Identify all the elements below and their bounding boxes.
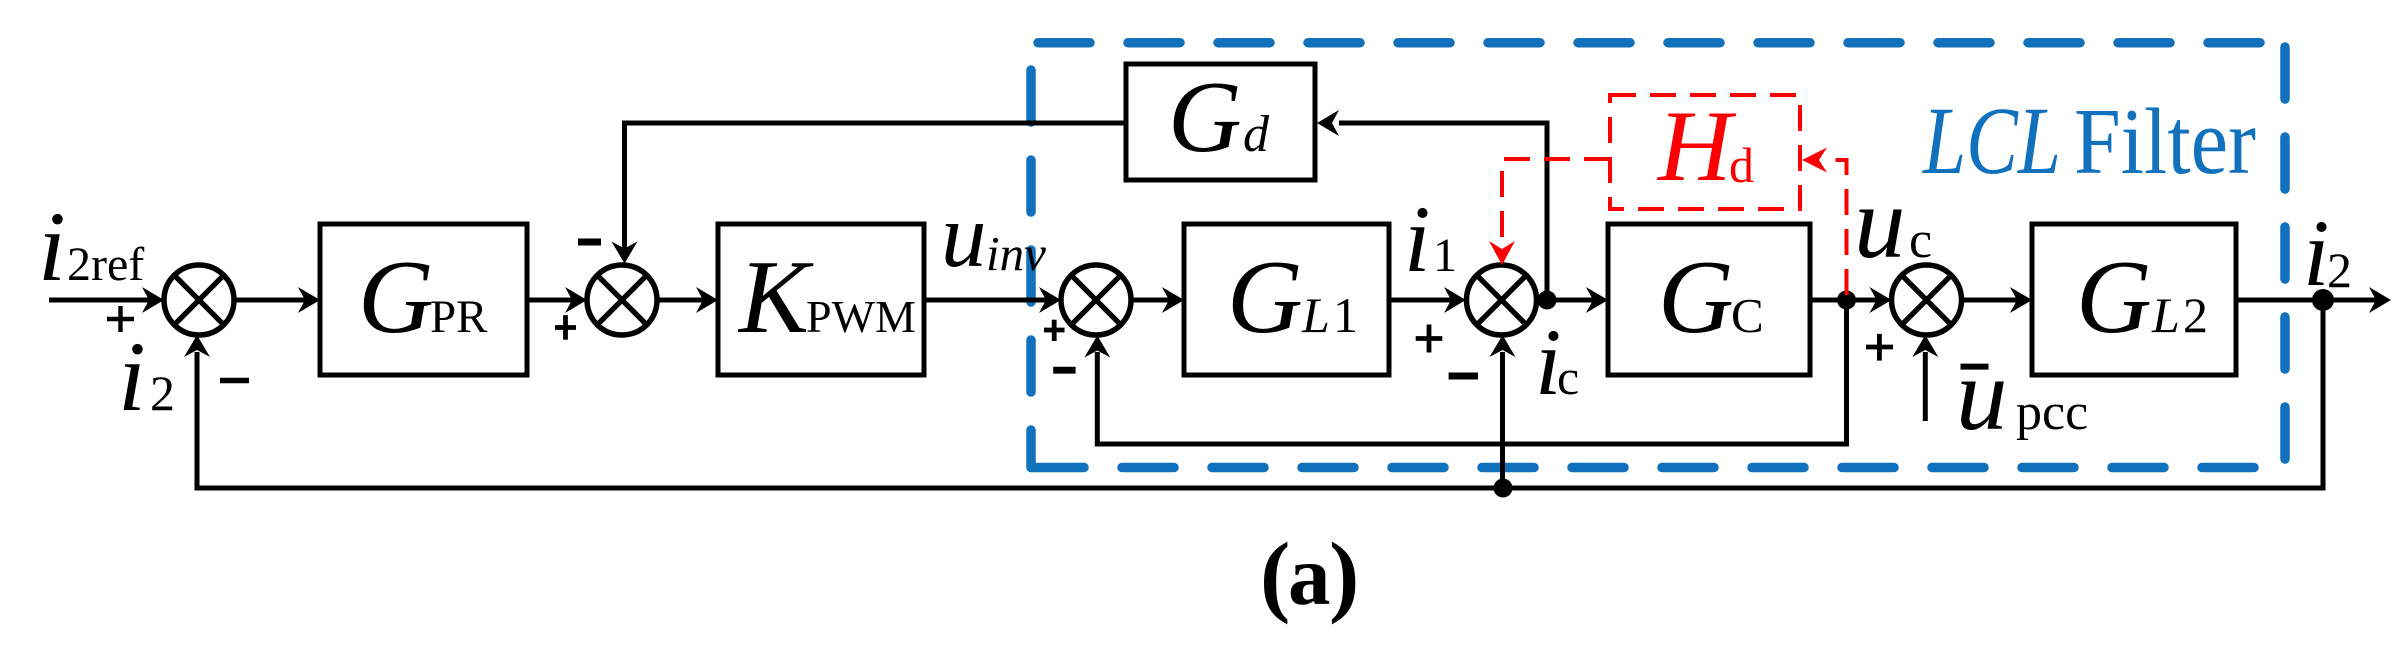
wire uc feedback to J3: [1097, 300, 1846, 444]
minus sign at J5: [1961, 364, 1989, 370]
node on bottom feedback: [1494, 479, 1513, 498]
node after J4: [1538, 291, 1557, 310]
svg-text:2: 2: [2183, 287, 2208, 343]
svg-text:i: i: [2303, 200, 2329, 306]
svg-text:G: G: [1658, 238, 1734, 355]
plus sign at J5: [1866, 345, 1893, 350]
output node: [2312, 289, 2334, 311]
svg-text:PWM: PWM: [806, 291, 916, 342]
svg-text:L: L: [2151, 287, 2180, 343]
svg-text:G: G: [1227, 238, 1303, 355]
wire upcc input: [1923, 352, 1928, 421]
svg-text:c: c: [1909, 212, 1932, 269]
svg-text:C: C: [1731, 288, 1764, 343]
red wire uc to Hd: [1830, 160, 1847, 295]
svg-text:1: 1: [1333, 287, 1358, 343]
svg-text:i: i: [1404, 186, 1430, 292]
plus sign at J4: [1416, 336, 1443, 341]
svg-text:u: u: [941, 185, 987, 286]
svg-text:pcc: pcc: [2016, 384, 2088, 441]
wire GC to J5 with node uc: [1810, 298, 1879, 303]
block GL1: [1184, 224, 1389, 375]
minus sign at J3: [1053, 367, 1075, 374]
node uc: [1837, 291, 1856, 310]
svg-text:i: i: [38, 191, 66, 302]
svg-text:LCL: LCL: [1921, 87, 2061, 194]
wire GL2 to output with node: [2236, 298, 2379, 303]
plus sign at J2: [555, 325, 576, 330]
wire Gd to J2: [625, 123, 1127, 250]
svg-text:d: d: [1243, 106, 1270, 163]
svg-text:L: L: [1301, 287, 1330, 343]
summing junction J3: [1061, 265, 1131, 335]
wire KPWM to J3: [924, 298, 1049, 303]
plus sign at J1: [107, 317, 134, 321]
minus sign at J4: [1449, 373, 1478, 380]
minus sign at J2 top: [578, 239, 601, 246]
svg-text:): ): [1329, 524, 1359, 625]
wire GL1 to J4: [1389, 298, 1454, 303]
svg-text:2: 2: [150, 365, 175, 421]
wire outer i2 feedback: [197, 300, 2323, 488]
svg-text:inv: inv: [986, 226, 1046, 281]
svg-text:i: i: [118, 321, 146, 432]
wire J1 to GPR: [234, 298, 308, 303]
summing junction J2: [587, 265, 657, 335]
svg-text:a: a: [1288, 529, 1331, 623]
svg-text:(: (: [1260, 524, 1290, 625]
svg-text:PR: PR: [430, 291, 488, 343]
svg-text:H: H: [1656, 90, 1737, 203]
svg-text:c: c: [1557, 349, 1579, 405]
block GC: [1608, 224, 1810, 375]
plus sign at J3: [1044, 328, 1065, 333]
wire J3 to GL1: [1131, 298, 1172, 303]
svg-text:2: 2: [2327, 242, 2352, 298]
svg-text:d: d: [1729, 137, 1754, 193]
svg-text:u: u: [1956, 338, 2008, 452]
svg-text:G: G: [2076, 238, 2152, 355]
svg-text:G: G: [1168, 61, 1242, 174]
wire i2 branch to J4: [1500, 352, 1505, 488]
svg-text:2ref: 2ref: [67, 238, 144, 291]
wire input i2ref: [49, 298, 152, 303]
block Gd: [1126, 64, 1315, 180]
block GL2: [2032, 224, 2236, 375]
wire J5 to GL2: [1962, 298, 2021, 303]
wire J2 to KPWM: [657, 298, 706, 303]
damping block Hd (red dashed box): [1610, 95, 1800, 209]
block KPWM: [718, 224, 924, 375]
red wire Hd to J4: [1502, 159, 1610, 242]
summing junction J4: [1467, 265, 1537, 335]
block GPR: [320, 224, 527, 375]
svg-text:u: u: [1854, 166, 1906, 280]
wire tap to Gd: [1339, 123, 1547, 300]
summing junction J5: [1892, 265, 1962, 335]
wire GPR to J2: [527, 298, 575, 303]
svg-text:Filter: Filter: [2074, 90, 2256, 194]
svg-text:G: G: [358, 238, 434, 355]
LCL filter boundary (blue dashed box): [1031, 43, 2290, 468]
wire J4 to GC with node: [1537, 298, 1597, 303]
summing junction J1: [164, 265, 234, 335]
svg-text:1: 1: [1433, 229, 1457, 282]
svg-text:K: K: [737, 238, 814, 355]
minus sign at J1: [220, 378, 249, 384]
